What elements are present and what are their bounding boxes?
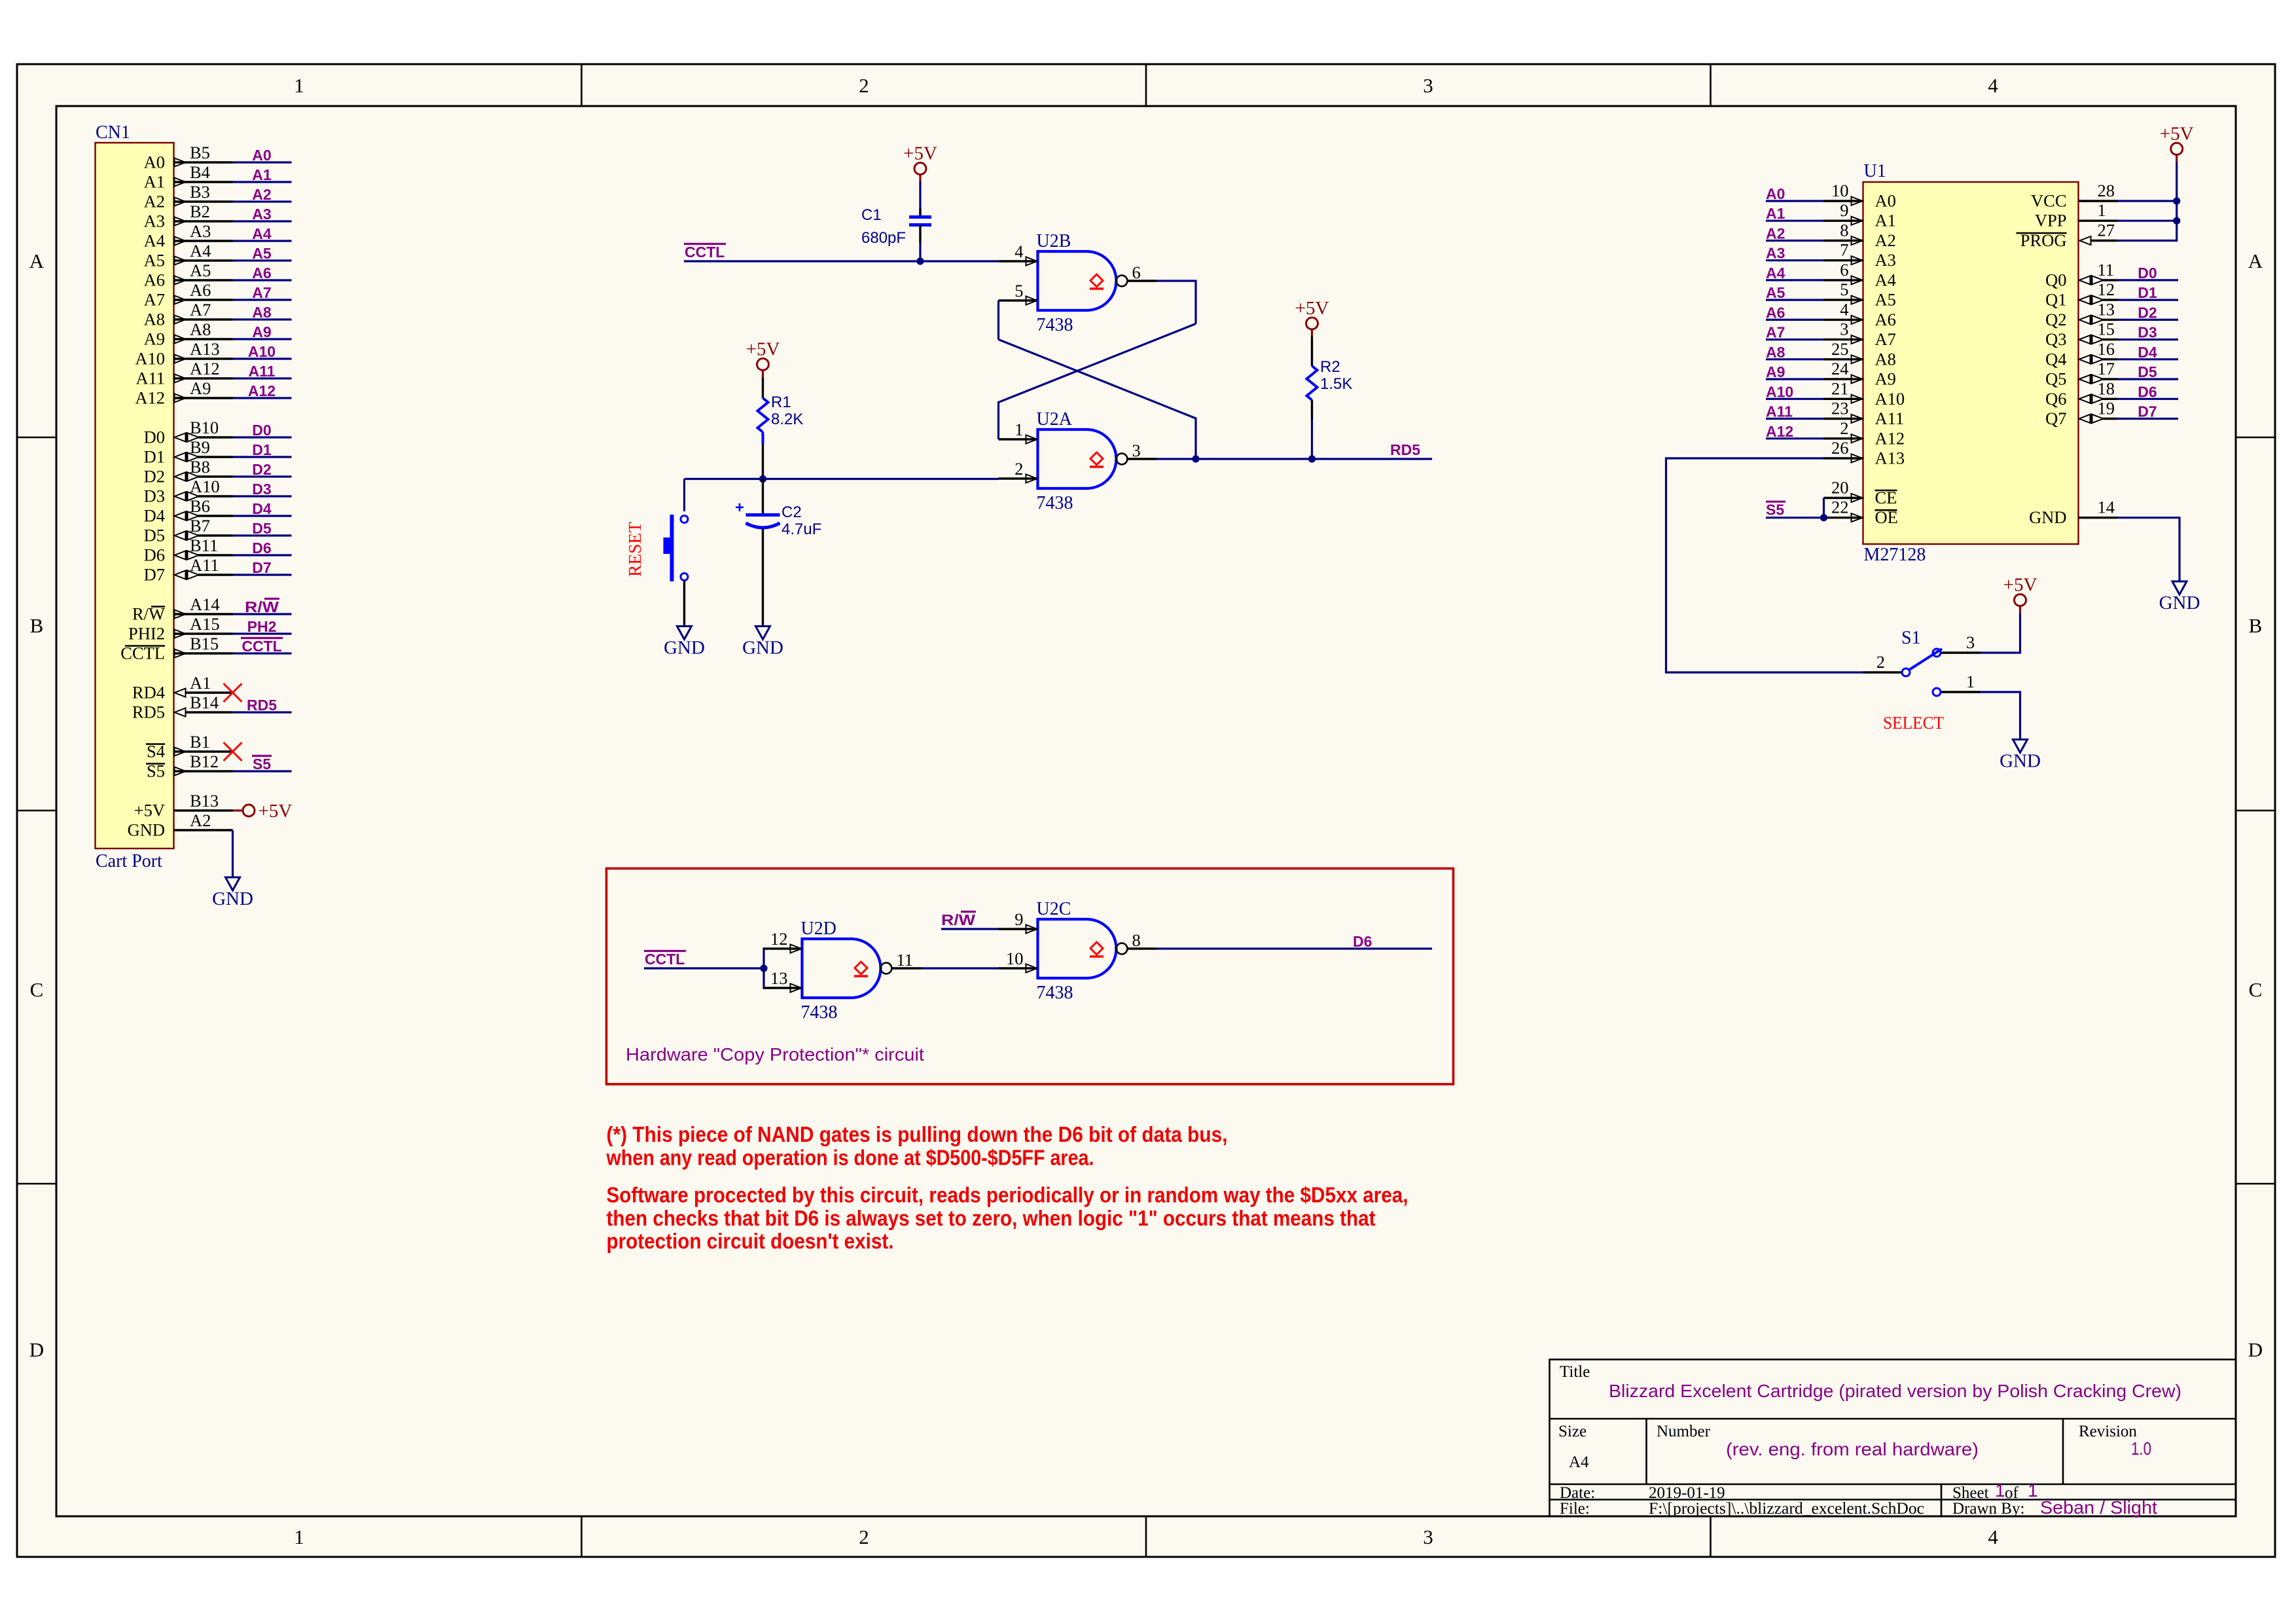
svg-text:RESET: RESET bbox=[625, 521, 645, 577]
pin Q1 (pin 12) of U1 bbox=[2045, 280, 2117, 310]
svg-text:A10: A10 bbox=[1875, 389, 1905, 409]
svg-text:A13: A13 bbox=[190, 339, 220, 359]
wire +5V to R1 bbox=[762, 378, 764, 399]
svg-text:Size: Size bbox=[1558, 1423, 1587, 1440]
svg-text:+5V: +5V bbox=[1295, 298, 1329, 319]
pin A6 (pin 4) of U1 bbox=[1824, 299, 1896, 329]
wire U2A.3 to U2B.5 (diagonal) bbox=[999, 340, 1196, 460]
wire net CCTL to U2B pin4 bbox=[684, 260, 999, 262]
svg-text:B12: B12 bbox=[190, 752, 219, 771]
svg-text:A2: A2 bbox=[252, 186, 271, 203]
svg-text:S1: S1 bbox=[1901, 628, 1921, 648]
svg-text:A8: A8 bbox=[190, 319, 211, 339]
svg-text:File:: File: bbox=[1560, 1500, 1590, 1518]
svg-text:A3: A3 bbox=[1875, 250, 1896, 270]
wire net A6 to U1 bbox=[1766, 319, 1824, 321]
svg-text:22: 22 bbox=[1831, 498, 1849, 517]
svg-text:11: 11 bbox=[897, 950, 914, 970]
pin D5 (B7) of CN1 bbox=[144, 516, 233, 545]
svg-text:+5V: +5V bbox=[746, 339, 780, 360]
svg-text:A0: A0 bbox=[252, 147, 271, 164]
svg-text:2: 2 bbox=[859, 1525, 869, 1548]
pin 4 of U2B bbox=[999, 242, 1038, 266]
pin A8 (pin 25) of U1 bbox=[1824, 339, 1896, 369]
wire RD5 net to label bbox=[1312, 458, 1433, 460]
svg-text:10: 10 bbox=[1006, 949, 1024, 968]
wire U2D.11 to U2C.10 bbox=[922, 967, 999, 969]
pin A5 (A4) of CN1 bbox=[144, 241, 233, 270]
svg-text:B2: B2 bbox=[190, 202, 210, 221]
svg-text:A8: A8 bbox=[1766, 344, 1785, 361]
pin S5 (B12) of CN1 bbox=[146, 752, 233, 781]
svg-text:3: 3 bbox=[1132, 441, 1141, 460]
svg-text:B: B bbox=[30, 614, 44, 637]
svg-text:A8: A8 bbox=[1875, 349, 1896, 369]
junction S5/CE bbox=[1820, 514, 1827, 521]
pin A4 (pin 6) of U1 bbox=[1824, 260, 1896, 290]
pin A2 (pin 8) of U1 bbox=[1824, 221, 1896, 251]
svg-text:Number: Number bbox=[1657, 1423, 1711, 1440]
svg-text:A5: A5 bbox=[1875, 290, 1896, 310]
svg-text:Seban / Slight: Seban / Slight bbox=[2040, 1497, 2157, 1518]
svg-text:D4: D4 bbox=[144, 506, 165, 526]
svg-text:C1: C1 bbox=[861, 206, 882, 224]
svg-text:Q0: Q0 bbox=[2045, 270, 2066, 289]
wire net A13 to S1 bbox=[1666, 458, 1863, 672]
svg-text:A7: A7 bbox=[1875, 329, 1896, 349]
svg-text:D3: D3 bbox=[144, 486, 165, 506]
switch S1 (SELECT) bbox=[1902, 649, 1942, 696]
svg-text:CCTL: CCTL bbox=[645, 951, 685, 968]
pin CE (pin 20) of U1 bbox=[1824, 478, 1897, 508]
wire net A4 bbox=[233, 240, 292, 242]
svg-text:A10: A10 bbox=[1766, 383, 1793, 400]
wire net D5 bbox=[233, 534, 292, 536]
wire +5V to C1 bbox=[919, 182, 921, 217]
svg-text:7438: 7438 bbox=[1037, 493, 1073, 513]
svg-text:A9: A9 bbox=[144, 329, 165, 349]
svg-text:GND: GND bbox=[2159, 593, 2200, 613]
pin 10 of U2C bbox=[999, 949, 1038, 973]
svg-text:D2: D2 bbox=[2138, 304, 2157, 321]
svg-text:Q4: Q4 bbox=[2045, 349, 2066, 369]
svg-text:8: 8 bbox=[1840, 221, 1848, 240]
svg-text:B15: B15 bbox=[190, 634, 219, 653]
svg-text:+5V: +5V bbox=[2003, 575, 2037, 596]
pin A12 (pin 2) of U1 bbox=[1824, 418, 1905, 448]
pin D1 (B9) of CN1 bbox=[144, 437, 233, 467]
svg-text:PH2: PH2 bbox=[247, 618, 277, 635]
wire net A0 to U1 bbox=[1766, 200, 1824, 202]
wire net S5 to OE bbox=[1766, 517, 1824, 519]
svg-text:VPP: VPP bbox=[2035, 211, 2067, 230]
svg-text:VCC: VCC bbox=[2031, 191, 2067, 211]
pin D6 (B11) of CN1 bbox=[144, 536, 233, 565]
wire net D4 bbox=[233, 515, 292, 517]
NAND gate U2D bbox=[802, 939, 892, 998]
zone dividers top bbox=[581, 64, 583, 106]
svg-text:Q3: Q3 bbox=[2045, 329, 2066, 349]
svg-text:A4: A4 bbox=[1875, 270, 1896, 289]
svg-text:9: 9 bbox=[1014, 909, 1023, 929]
svg-text:2: 2 bbox=[1014, 459, 1023, 479]
svg-text:A3: A3 bbox=[144, 211, 165, 231]
wire VPP bbox=[2118, 220, 2177, 222]
svg-text:A4: A4 bbox=[1766, 264, 1785, 282]
junction VCC bbox=[2173, 197, 2180, 204]
wire net A3 bbox=[233, 220, 292, 222]
title block frame bbox=[1550, 1360, 2236, 1517]
svg-text:8.2K: 8.2K bbox=[771, 410, 803, 428]
svg-text:A11: A11 bbox=[1875, 409, 1905, 428]
svg-text:U2A: U2A bbox=[1037, 409, 1073, 429]
svg-text:25: 25 bbox=[1831, 339, 1849, 359]
svg-text:680pF: 680pF bbox=[861, 229, 906, 247]
pushbutton RESET switch bbox=[664, 515, 689, 581]
svg-text:A12: A12 bbox=[248, 382, 276, 399]
power +5V bbox=[1295, 298, 1329, 337]
svg-text:20: 20 bbox=[1831, 478, 1849, 498]
annotation red note 1 bbox=[606, 1122, 1228, 1169]
wire S5 up to CE bbox=[1823, 498, 1825, 518]
svg-text:U1: U1 bbox=[1864, 161, 1886, 181]
svg-text:A13: A13 bbox=[1875, 448, 1905, 468]
wire junction to C2 bbox=[762, 479, 764, 515]
svg-text:A11: A11 bbox=[1766, 403, 1793, 420]
pin A4 (A3) of CN1 bbox=[144, 221, 233, 251]
svg-text:D6: D6 bbox=[1353, 933, 1372, 950]
pin A11 (A12) of CN1 bbox=[135, 359, 232, 388]
svg-text:A1: A1 bbox=[1875, 211, 1896, 230]
svg-text:SELECT: SELECT bbox=[1883, 713, 1944, 733]
pin 12 of U2D bbox=[763, 929, 802, 953]
svg-text:B5: B5 bbox=[190, 143, 210, 162]
svg-text:D5: D5 bbox=[144, 526, 165, 545]
svg-text:A7: A7 bbox=[190, 300, 211, 319]
svg-text:1: 1 bbox=[2098, 200, 2106, 220]
pin +5V (B13) of CN1 bbox=[134, 791, 233, 820]
pin A13 (pin 26) of U1 bbox=[1824, 438, 1905, 468]
svg-text:15: 15 bbox=[2098, 319, 2115, 339]
power +5V bbox=[746, 339, 780, 378]
junction R2/RD5 bbox=[1308, 455, 1316, 462]
svg-text:Q7: Q7 bbox=[2045, 409, 2066, 428]
svg-text:A0: A0 bbox=[144, 153, 165, 172]
svg-text:A: A bbox=[29, 249, 45, 272]
resistor R1 bbox=[758, 398, 768, 432]
svg-text:8: 8 bbox=[1132, 930, 1141, 950]
pin Q6 (pin 18) of U1 bbox=[2045, 378, 2117, 409]
svg-text:Q2: Q2 bbox=[2045, 310, 2066, 329]
zone dividers left bbox=[17, 437, 56, 439]
svg-text:B11: B11 bbox=[190, 536, 218, 555]
power port +5V at CN1 bbox=[233, 801, 293, 822]
ground below CN1 bbox=[212, 877, 253, 909]
pin of R1 bbox=[762, 432, 764, 479]
svg-text:B6: B6 bbox=[190, 496, 210, 516]
power +5V bbox=[2003, 575, 2037, 613]
wire net D2 bbox=[233, 475, 292, 477]
svg-text:A1: A1 bbox=[144, 172, 165, 192]
svg-text:5: 5 bbox=[1840, 280, 1848, 299]
svg-text:A15: A15 bbox=[190, 614, 220, 634]
svg-text:A2: A2 bbox=[1875, 230, 1896, 250]
wire net A10 to U1 bbox=[1766, 398, 1824, 400]
svg-text:Title: Title bbox=[1560, 1363, 1590, 1381]
wire net A10 bbox=[233, 357, 292, 359]
svg-text:of: of bbox=[2005, 1484, 2019, 1502]
svg-text:A7: A7 bbox=[1766, 324, 1785, 341]
svg-text:7438: 7438 bbox=[1037, 983, 1073, 1003]
wire net A11 to U1 bbox=[1766, 418, 1824, 420]
junction latch output bbox=[1192, 455, 1199, 462]
svg-text:11: 11 bbox=[2098, 260, 2115, 280]
wire net CCTL bbox=[233, 652, 292, 654]
svg-text:10: 10 bbox=[1831, 181, 1849, 200]
svg-text:+5V: +5V bbox=[903, 143, 937, 164]
svg-text:R2: R2 bbox=[1320, 358, 1340, 376]
svg-text:A4: A4 bbox=[1569, 1453, 1589, 1471]
svg-text:A6: A6 bbox=[144, 270, 165, 290]
svg-text:+5V: +5V bbox=[2160, 123, 2194, 144]
svg-text:A12: A12 bbox=[1766, 423, 1793, 440]
svg-text:A1: A1 bbox=[1766, 205, 1785, 222]
svg-text:A12: A12 bbox=[190, 359, 220, 378]
svg-text:Cart Port: Cart Port bbox=[96, 851, 162, 871]
wire net A9 to U1 bbox=[1766, 378, 1824, 380]
svg-text:D4: D4 bbox=[252, 500, 272, 517]
pin 6 of U2B bbox=[1128, 263, 1157, 282]
svg-text:D3: D3 bbox=[252, 481, 271, 498]
svg-text:16: 16 bbox=[2098, 339, 2115, 359]
svg-text:S5: S5 bbox=[253, 756, 271, 773]
svg-text:Q5: Q5 bbox=[2045, 369, 2066, 389]
pin OE (pin 22) of U1 bbox=[1824, 498, 1898, 528]
pin D7 (A11) of CN1 bbox=[144, 555, 233, 585]
pin GND (pin 14) of U1 bbox=[2029, 498, 2117, 528]
svg-text:GND: GND bbox=[2029, 507, 2066, 527]
wire R/W to U2C.9 bbox=[941, 928, 999, 930]
wire reset net to U2A pin2 bbox=[685, 478, 999, 480]
pin Q7 (pin 19) of U1 bbox=[2045, 399, 2117, 429]
svg-text:2: 2 bbox=[1840, 418, 1848, 438]
wire joining U2D pins bbox=[762, 949, 764, 988]
pin A2 (B3) of CN1 bbox=[144, 182, 233, 211]
svg-text:CCTL: CCTL bbox=[685, 244, 725, 261]
pin 2 of S1 bbox=[1863, 652, 1902, 672]
svg-text:A5: A5 bbox=[252, 245, 272, 262]
svg-text:4: 4 bbox=[1014, 242, 1023, 261]
ground below U1 bbox=[2159, 581, 2200, 613]
svg-text:B1: B1 bbox=[190, 732, 210, 752]
svg-text:23: 23 bbox=[1831, 399, 1849, 418]
pin A10 (pin 21) of U1 bbox=[1824, 378, 1905, 409]
pin VCC (pin 28) of U1 bbox=[2031, 181, 2118, 211]
junction C1/CCTL bbox=[916, 257, 924, 264]
pin GND (A2) of CN1 bbox=[128, 811, 233, 840]
svg-text:A11: A11 bbox=[135, 369, 165, 388]
no-connect X on RD4 bbox=[224, 684, 242, 702]
wire net A11 bbox=[233, 377, 292, 379]
svg-text:1.5K: 1.5K bbox=[1320, 375, 1352, 393]
svg-text:14: 14 bbox=[2098, 498, 2115, 517]
ground below S1 bbox=[2000, 740, 2041, 772]
ground below RESET bbox=[664, 627, 705, 659]
wire C1 to CCTL net bbox=[919, 243, 921, 261]
pin A1 (B4) of CN1 bbox=[144, 162, 233, 192]
svg-text:A9: A9 bbox=[1766, 363, 1785, 380]
svg-text:then checks that bit D6 is alw: then checks that bit D6 is always set to… bbox=[607, 1206, 1376, 1230]
svg-text:1: 1 bbox=[294, 1525, 304, 1548]
svg-text:RD4: RD4 bbox=[132, 683, 165, 702]
pin 1 of S1 bbox=[1941, 672, 1981, 692]
svg-text:9: 9 bbox=[1840, 200, 1848, 220]
svg-text:A4: A4 bbox=[252, 225, 272, 242]
pin A9 (pin 24) of U1 bbox=[1824, 359, 1896, 389]
svg-text:12: 12 bbox=[2098, 280, 2115, 299]
svg-text:1: 1 bbox=[1995, 1480, 2005, 1501]
svg-text:7438: 7438 bbox=[801, 1002, 838, 1023]
svg-text:A12: A12 bbox=[135, 388, 165, 408]
wire S1.1 to GND bbox=[1981, 692, 2020, 740]
svg-text:21: 21 bbox=[1831, 378, 1849, 398]
wire C2 to ground bbox=[762, 528, 764, 627]
svg-text:4: 4 bbox=[1988, 74, 1998, 97]
pin A12 (A9) of CN1 bbox=[135, 378, 232, 408]
pin R/W (A14) of CN1 bbox=[132, 594, 233, 624]
pin Q2 (pin 13) of U1 bbox=[2045, 299, 2117, 329]
svg-text:12: 12 bbox=[770, 929, 788, 949]
svg-text:A10: A10 bbox=[248, 343, 276, 360]
pin A0 (pin 10) of U1 bbox=[1824, 181, 1896, 211]
svg-text:D0: D0 bbox=[2138, 264, 2157, 282]
pin VPP (pin 1) of U1 bbox=[2035, 200, 2118, 230]
svg-text:Q6: Q6 bbox=[2045, 389, 2066, 409]
svg-text:B10: B10 bbox=[190, 418, 219, 437]
svg-text:B7: B7 bbox=[190, 516, 210, 536]
wire net A2 bbox=[233, 200, 292, 202]
svg-text:A4: A4 bbox=[190, 241, 211, 261]
wire net D1 from U1 bbox=[2118, 299, 2179, 301]
svg-text:1.0: 1.0 bbox=[2131, 1438, 2151, 1459]
svg-text:RD5: RD5 bbox=[247, 697, 277, 714]
svg-text:A10: A10 bbox=[135, 349, 165, 369]
svg-text:5: 5 bbox=[1014, 281, 1023, 301]
wire net S5 bbox=[233, 770, 292, 772]
svg-text:A2: A2 bbox=[144, 192, 165, 211]
svg-text:D6: D6 bbox=[2138, 383, 2157, 400]
svg-text:A5: A5 bbox=[190, 261, 211, 280]
svg-text:A9: A9 bbox=[252, 323, 271, 340]
wire U2B.5 down bbox=[997, 301, 999, 340]
wire net D7 bbox=[233, 574, 292, 575]
svg-text:B13: B13 bbox=[190, 791, 219, 811]
svg-text:6: 6 bbox=[1840, 260, 1848, 280]
svg-text:A1: A1 bbox=[252, 166, 272, 183]
net label CCTL bbox=[241, 638, 283, 655]
svg-text:GND: GND bbox=[212, 888, 253, 909]
pin PHI2 (A15) of CN1 bbox=[128, 614, 232, 644]
svg-text:27: 27 bbox=[2098, 221, 2115, 240]
svg-text:C: C bbox=[2249, 978, 2263, 1001]
pin A6 (A5) of CN1 bbox=[144, 261, 233, 290]
svg-text:C2: C2 bbox=[781, 503, 802, 521]
svg-text:+5V: +5V bbox=[259, 801, 293, 822]
capacitor C2 (polarized) bbox=[735, 499, 780, 528]
svg-text:A0: A0 bbox=[1875, 191, 1896, 211]
svg-text:Q1: Q1 bbox=[2045, 290, 2066, 310]
svg-text:A3: A3 bbox=[1766, 245, 1785, 262]
svg-text:Blizzard Excelent Cartridge (p: Blizzard Excelent Cartridge (pirated ver… bbox=[1609, 1381, 2181, 1401]
IC U1 M27128 body bbox=[1863, 182, 2079, 544]
wire S1.3 to +5V bbox=[1981, 613, 2020, 653]
wire U2A.3 to junction bbox=[1157, 458, 1196, 460]
svg-text:7438: 7438 bbox=[1037, 315, 1073, 335]
svg-text:A7: A7 bbox=[144, 290, 165, 310]
svg-text:2019-01-19: 2019-01-19 bbox=[1649, 1484, 1725, 1502]
pin D4 (B6) of CN1 bbox=[144, 496, 233, 526]
wire RD5 net bbox=[1196, 458, 1312, 460]
wire U2B.6 right/down bbox=[1157, 281, 1196, 324]
svg-text:D7: D7 bbox=[252, 559, 271, 576]
svg-text:7: 7 bbox=[1840, 240, 1848, 260]
svg-text:B4: B4 bbox=[190, 162, 210, 182]
pin A5 (pin 5) of U1 bbox=[1824, 280, 1896, 310]
net label R/W bbox=[245, 598, 279, 615]
pin A0 (B5) of CN1 bbox=[144, 143, 233, 172]
zone dividers right bbox=[2236, 437, 2275, 439]
svg-text:B3: B3 bbox=[190, 182, 210, 202]
svg-text:A7: A7 bbox=[252, 284, 271, 301]
svg-text:Sheet: Sheet bbox=[1952, 1484, 1989, 1502]
wire net A8 bbox=[233, 318, 292, 320]
svg-text:R/W: R/W bbox=[941, 911, 975, 928]
annotation box: copy protection circuit bbox=[607, 869, 1454, 1085]
pin 3 of S1 bbox=[1941, 632, 1981, 653]
wire net D2 from U1 bbox=[2118, 319, 2179, 321]
svg-text:B8: B8 bbox=[190, 457, 210, 477]
svg-text:M27128: M27128 bbox=[1864, 545, 1926, 565]
svg-text:(*) This piece of NAND gates i: (*) This piece of NAND gates is pulling … bbox=[607, 1122, 1228, 1146]
svg-text:1: 1 bbox=[1966, 672, 1975, 691]
annotation red note 2 bbox=[607, 1183, 1408, 1254]
svg-text:6: 6 bbox=[1132, 263, 1141, 282]
pin S4 (B1) of CN1 bbox=[146, 732, 233, 761]
wire net R/W bbox=[233, 613, 292, 615]
pin PROG (pin 27) of U1 bbox=[2017, 221, 2118, 251]
svg-text:Software procected by this cir: Software procected by this circuit, read… bbox=[607, 1183, 1408, 1207]
pin A9 (A8) of CN1 bbox=[144, 319, 233, 349]
svg-text:S5: S5 bbox=[1766, 501, 1784, 519]
pin CCTL (B15) of CN1 bbox=[120, 634, 232, 663]
svg-text:A3: A3 bbox=[252, 206, 271, 223]
svg-text:B9: B9 bbox=[190, 437, 210, 457]
svg-text:A14: A14 bbox=[190, 594, 220, 614]
svg-text:A3: A3 bbox=[190, 221, 211, 241]
svg-text:A2: A2 bbox=[1766, 225, 1785, 242]
capacitor C1 bbox=[909, 209, 931, 244]
svg-text:D2: D2 bbox=[144, 467, 165, 486]
pin 2 of U2A bbox=[999, 459, 1038, 483]
power +5V bbox=[903, 143, 937, 182]
wire net A5 bbox=[233, 259, 292, 261]
pin D3 (A10) of CN1 bbox=[144, 477, 233, 506]
svg-text:PHI2: PHI2 bbox=[128, 624, 165, 644]
wire net PH2 bbox=[233, 632, 292, 634]
svg-text:B: B bbox=[2249, 614, 2263, 637]
svg-text:Revision: Revision bbox=[2079, 1423, 2137, 1440]
svg-text:3: 3 bbox=[1966, 632, 1975, 652]
